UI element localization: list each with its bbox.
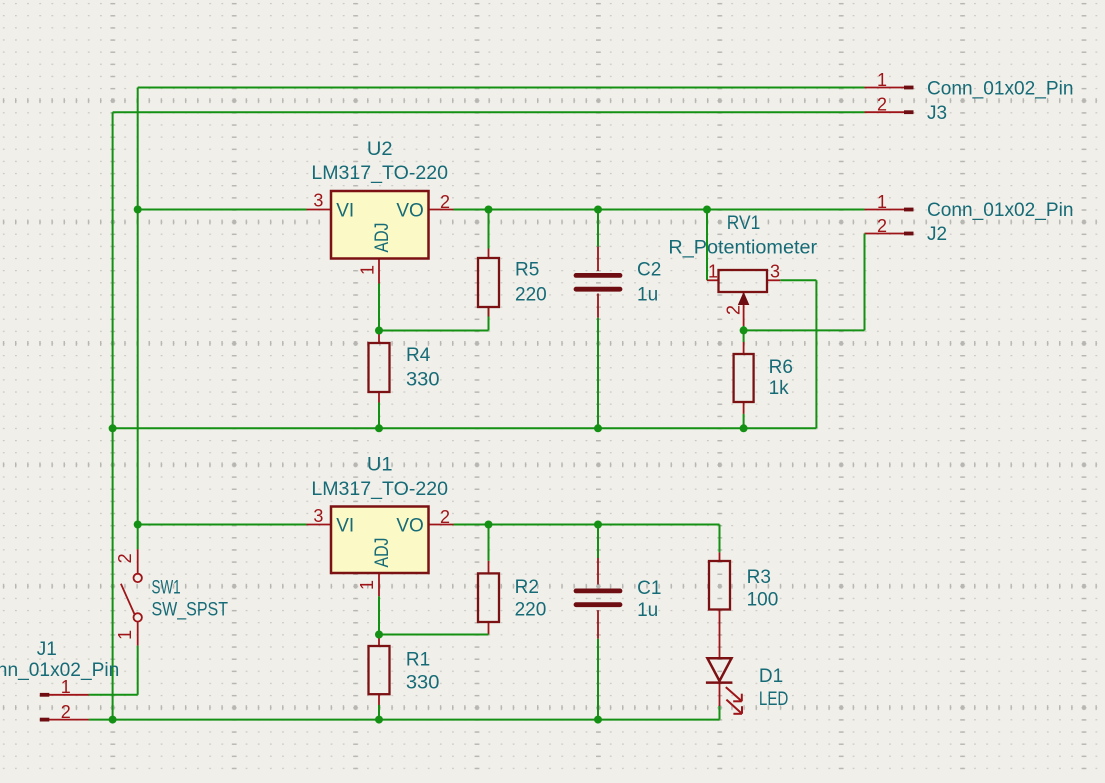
svg-text:Conn_01x02_Pin: Conn_01x02_Pin (0, 660, 119, 681)
svg-text:330: 330 (406, 370, 440, 391)
svg-text:VI: VI (336, 200, 354, 221)
svg-text:100: 100 (747, 589, 779, 610)
svg-text:J2: J2 (927, 224, 947, 245)
svg-text:3: 3 (313, 191, 323, 211)
svg-text:C1: C1 (637, 578, 661, 599)
svg-text:1: 1 (877, 192, 887, 212)
svg-text:1: 1 (357, 265, 377, 275)
svg-text:220: 220 (515, 600, 547, 621)
svg-text:Conn_01x02_Pin: Conn_01x02_Pin (927, 200, 1074, 221)
svg-text:1: 1 (708, 261, 718, 281)
svg-text:LM317_TO-220: LM317_TO-220 (311, 163, 448, 184)
svg-text:U2: U2 (367, 139, 393, 160)
svg-text:1k: 1k (769, 378, 790, 399)
svg-text:2: 2 (440, 192, 450, 212)
svg-text:R2: R2 (515, 577, 539, 598)
svg-text:R_Potentiometer: R_Potentiometer (668, 237, 817, 258)
svg-text:3: 3 (313, 506, 323, 526)
svg-text:R4: R4 (406, 345, 431, 366)
svg-text:ADJ: ADJ (372, 223, 393, 253)
svg-text:R1: R1 (406, 649, 430, 670)
svg-text:VO: VO (396, 515, 423, 536)
svg-text:R6: R6 (769, 357, 793, 378)
svg-text:LED: LED (759, 689, 789, 710)
svg-text:U1: U1 (367, 454, 393, 475)
svg-text:RV1: RV1 (727, 213, 761, 234)
svg-text:220: 220 (515, 285, 547, 306)
svg-text:1u: 1u (637, 285, 658, 306)
svg-text:VI: VI (336, 515, 354, 536)
svg-text:1u: 1u (637, 600, 658, 621)
svg-text:R5: R5 (515, 260, 539, 281)
svg-text:2: 2 (61, 702, 71, 722)
svg-text:2: 2 (440, 507, 450, 527)
svg-text:ADJ: ADJ (372, 538, 393, 568)
svg-text:2: 2 (877, 216, 887, 236)
svg-text:330: 330 (406, 673, 440, 694)
svg-text:1: 1 (61, 677, 71, 697)
svg-text:SW1: SW1 (152, 578, 181, 599)
svg-text:1: 1 (357, 580, 377, 590)
svg-text:VO: VO (396, 200, 423, 221)
svg-text:2: 2 (115, 553, 135, 563)
svg-text:Conn_01x02_Pin: Conn_01x02_Pin (927, 79, 1074, 100)
svg-text:LM317_TO-220: LM317_TO-220 (311, 479, 448, 500)
svg-text:D1: D1 (759, 666, 783, 687)
svg-text:SW_SPST: SW_SPST (152, 599, 229, 620)
svg-text:1: 1 (115, 630, 135, 640)
svg-text:J3: J3 (927, 103, 947, 124)
svg-text:3: 3 (770, 261, 780, 281)
svg-text:2: 2 (723, 305, 743, 315)
svg-text:2: 2 (877, 95, 887, 115)
svg-text:1: 1 (877, 70, 887, 90)
svg-text:J1: J1 (37, 639, 57, 660)
svg-text:C2: C2 (637, 260, 661, 281)
svg-text:R3: R3 (747, 567, 771, 588)
